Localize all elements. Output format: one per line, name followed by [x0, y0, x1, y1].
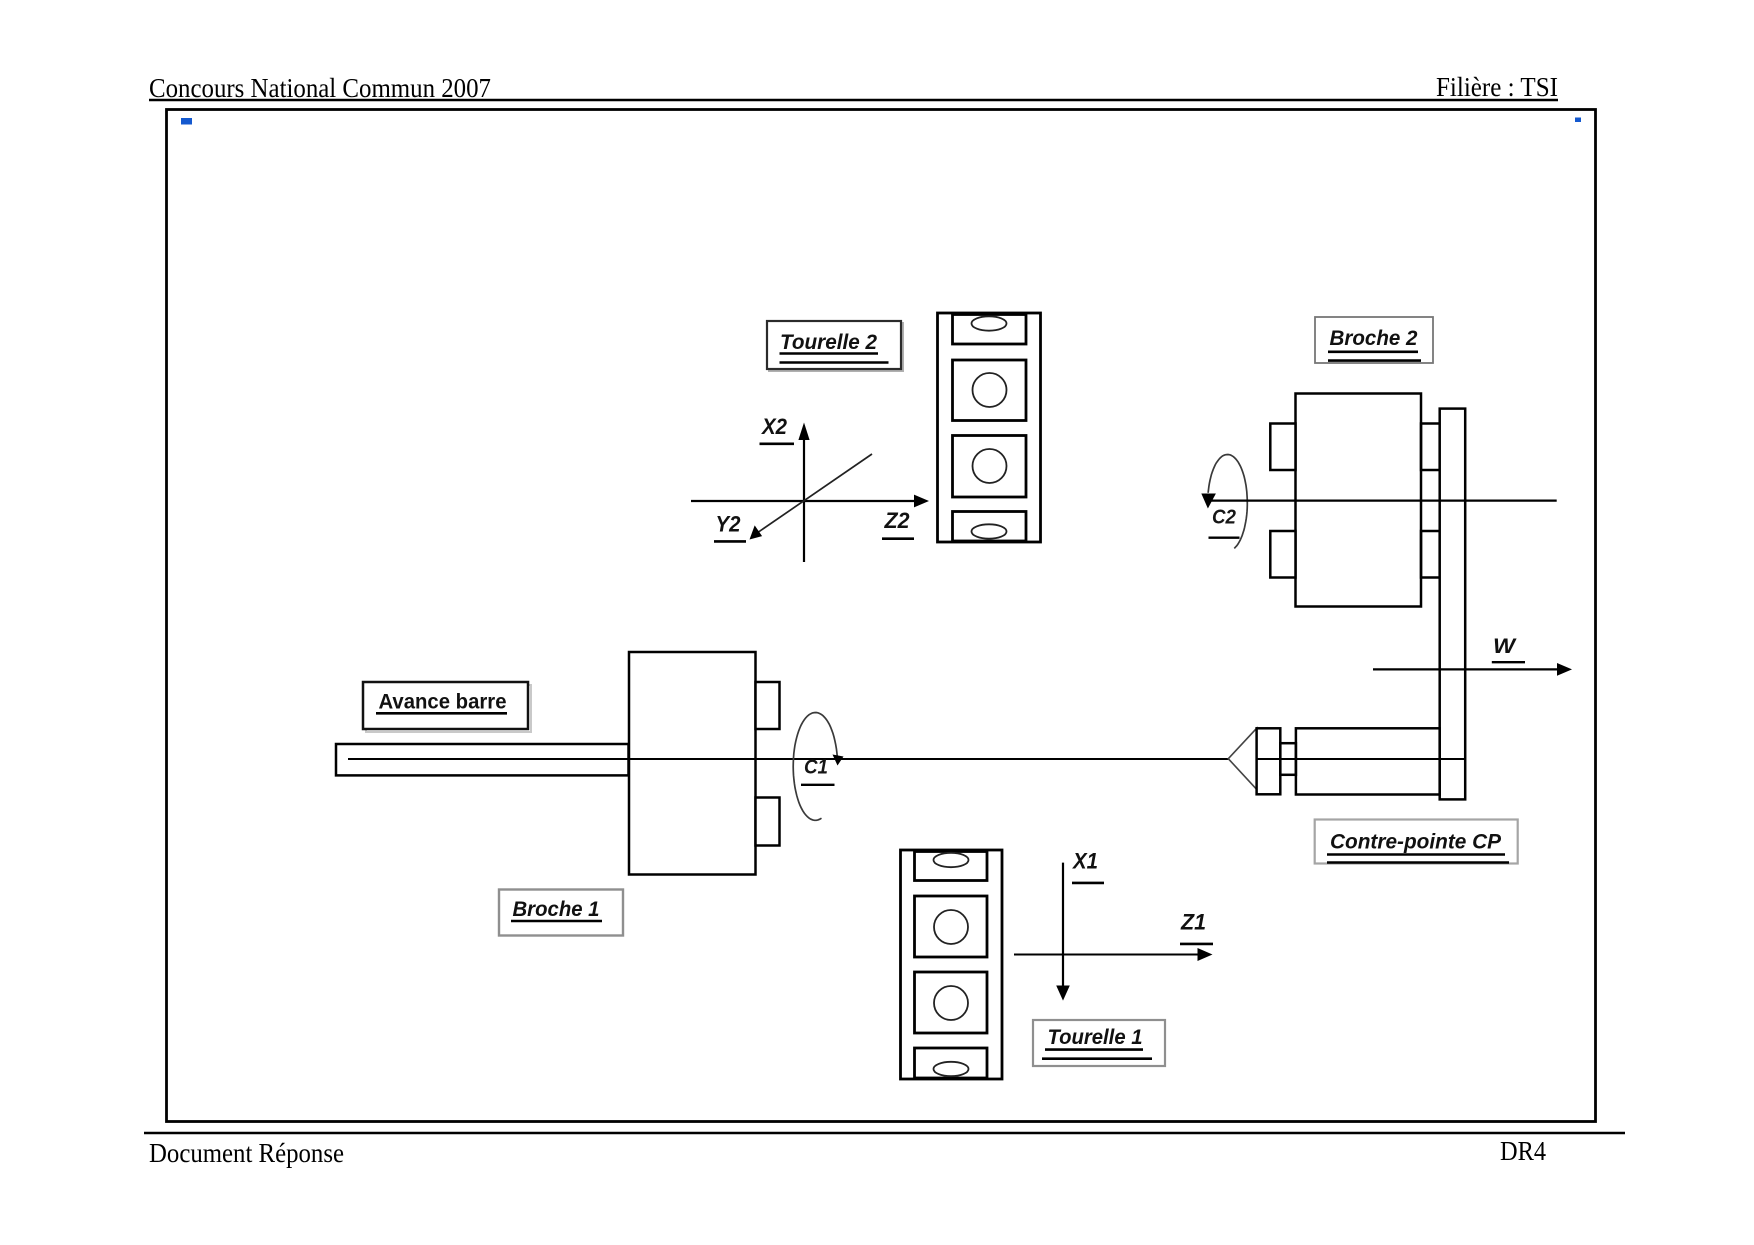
- blue marker top-right: [1575, 118, 1581, 123]
- svg-text:X2: X2: [760, 414, 788, 439]
- svg-text:W: W: [1493, 635, 1517, 658]
- svg-text:Filière : TSI: Filière : TSI: [1436, 72, 1558, 102]
- header rule: [149, 99, 1558, 101]
- label box Contre-pointe CP: [1315, 820, 1518, 864]
- axis Z2 arrowhead: [914, 495, 929, 508]
- label box Broche 2: [1315, 317, 1433, 363]
- turret 2 station 1: [953, 315, 1027, 345]
- label box Tourelle 1: [1033, 1020, 1165, 1066]
- spindle 2 axis left arrowhead: [1201, 494, 1216, 509]
- svg-text:C2: C2: [1212, 507, 1236, 529]
- svg-text:Avance barre: Avance barre: [379, 691, 507, 714]
- axis Y2 arrowhead: [750, 525, 763, 539]
- C2 rotation arc: [1208, 455, 1247, 549]
- tailstock neck: [1280, 743, 1296, 775]
- svg-text:Y2: Y2: [716, 511, 742, 536]
- axis X2 arrowhead: [798, 423, 809, 441]
- turret 1 station 2: [915, 896, 988, 957]
- svg-text:Concours National Commun 2007: Concours National Commun 2007: [149, 73, 491, 103]
- turret 1 body: [901, 850, 1003, 1079]
- spindle 2 right tab top: [1421, 424, 1440, 471]
- label box Avance barre: [363, 682, 531, 732]
- footer rule: [144, 1132, 1625, 1134]
- turret 1 station 3: [915, 972, 988, 1033]
- turret 2 station 4: [953, 512, 1027, 542]
- svg-text:Broche 1: Broche 1: [513, 898, 600, 921]
- svg-text:C1: C1: [804, 757, 828, 779]
- svg-text:Document Réponse: Document Réponse: [149, 1138, 344, 1168]
- axis X1 vertical line: [1062, 863, 1064, 986]
- spindle 2 left jaw top: [1270, 424, 1295, 471]
- tailstock centre holder: [1257, 728, 1281, 794]
- turret 2 station 3: [953, 436, 1027, 498]
- axis Z2 horizontal line: [691, 500, 915, 502]
- axis Z1 horizontal line: [1014, 954, 1199, 956]
- svg-text:Z2: Z2: [884, 508, 911, 533]
- tailstock column plate: [1440, 409, 1466, 800]
- svg-text:Z1: Z1: [1180, 910, 1206, 935]
- turret 1 station 4: [915, 1048, 988, 1078]
- axis X2 vertical line: [803, 440, 805, 562]
- axis Y2 diagonal line: [755, 454, 872, 534]
- C1 rotation arc: [793, 713, 837, 821]
- label box Tourelle 2: [767, 321, 903, 371]
- svg-text:X1: X1: [1071, 849, 1098, 874]
- svg-text:DR4: DR4: [1500, 1136, 1546, 1166]
- spindle 2 block: [1296, 394, 1422, 607]
- turret 2 body: [938, 313, 1041, 542]
- label box Broche 1: [499, 890, 623, 936]
- spindle 2 right tab bottom: [1421, 531, 1440, 578]
- spindle 1 block: [629, 652, 756, 875]
- axis Z1 arrowhead: [1198, 948, 1213, 961]
- main frame border: [167, 110, 1596, 1122]
- blue marker top-left: [181, 118, 192, 125]
- feed bar: [336, 744, 629, 775]
- spindle 2 axis line: [1209, 500, 1557, 502]
- spindle 2 left jaw bottom: [1270, 531, 1295, 578]
- W axis arrowhead: [1557, 663, 1572, 676]
- lathe axis line spindle 1: [348, 758, 1465, 760]
- axis X1 arrowhead: [1056, 986, 1070, 1001]
- turret 2 station 2: [953, 360, 1027, 421]
- turret 1 station 1: [915, 852, 988, 881]
- svg-text:Broche 2: Broche 2: [1330, 327, 1418, 350]
- spindle 1 right tab bottom: [756, 798, 780, 846]
- spindle 1 right tab top: [756, 682, 780, 729]
- svg-text:Tourelle 1: Tourelle 1: [1048, 1026, 1143, 1049]
- tailstock centre cone: [1228, 728, 1256, 789]
- svg-text:Contre-pointe CP: Contre-pointe CP: [1330, 831, 1502, 854]
- W axis line: [1373, 668, 1558, 670]
- svg-text:Tourelle 2: Tourelle 2: [780, 331, 877, 354]
- C1 arrowhead: [833, 755, 844, 766]
- tailstock barrel: [1296, 728, 1440, 794]
